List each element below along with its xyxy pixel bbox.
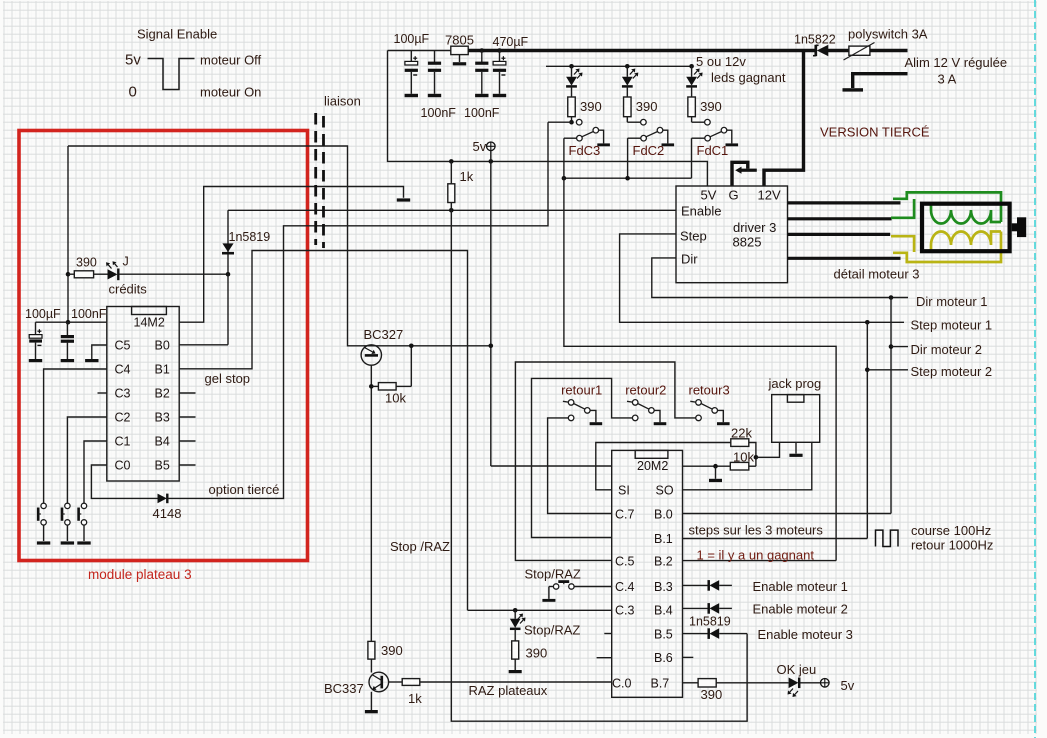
diode 1n5819 (222, 243, 234, 253)
pushbutton Stop/RAZ C.4 (549, 582, 612, 599)
svg-text:B.1: B.1 (654, 532, 673, 546)
ground bar under 100uF (29, 359, 42, 362)
svg-text:jack prog: jack prog (768, 376, 822, 391)
svg-text:BC337: BC337 (324, 681, 364, 696)
motor wire 1 (788, 201, 901, 204)
svg-text:C5: C5 (115, 339, 131, 353)
pin stub B (179, 464, 195, 466)
wire FdC2 B contact (628, 137, 641, 139)
svg-text:C.5: C.5 (615, 555, 635, 569)
svg-text:Step moteur 1: Step moteur 1 (911, 318, 993, 333)
svg-text:B.2: B.2 (654, 555, 673, 569)
resistor 390 FdC1 (688, 97, 696, 117)
svg-text:Dir moteur 1: Dir moteur 1 (916, 294, 988, 309)
motor wire 2 (788, 217, 892, 220)
capacitor 470uF power (493, 51, 506, 94)
waveform signal enable (148, 59, 195, 90)
wire stub enable moteur 2 (719, 607, 732, 609)
wire 1k down / enable riser to bottom rail (451, 203, 747, 722)
wire FdC3 node left (548, 121, 572, 123)
svg-text:390: 390 (700, 99, 722, 114)
resistor 390 OK jeu (698, 679, 716, 687)
wire credits LED to B0 node (119, 273, 228, 275)
svg-text:0: 0 (129, 84, 137, 101)
svg-text:moteur Off: moteur Off (200, 53, 262, 68)
svg-text:Stop /RAZ: Stop /RAZ (390, 539, 450, 554)
wire jack lead 1 (756, 442, 780, 457)
node 10k ground (713, 464, 718, 469)
svg-text:B.6: B.6 (654, 651, 673, 665)
svg-text:22k: 22k (731, 426, 752, 441)
svg-text:14M2: 14M2 (134, 316, 165, 330)
svg-text:100µF: 100µF (25, 307, 61, 321)
wire resistor bottom FdC2 (626, 117, 628, 123)
IC 20M2 box (612, 450, 683, 697)
capacitor 100nF power B (475, 51, 488, 94)
pin stub left row 658 (597, 657, 612, 659)
ground bar near power section (397, 198, 410, 201)
switch retour2 (627, 400, 660, 423)
svg-text:B.5: B.5 (654, 628, 673, 642)
svg-text:B1: B1 (155, 363, 170, 377)
svg-text:option tiercé: option tiercé (209, 482, 280, 497)
node leds bus FdC3 (569, 64, 574, 69)
wire retour2 to C.6 pin (532, 378, 633, 537)
svg-text:C0: C0 (115, 459, 131, 473)
svg-text:390: 390 (636, 99, 658, 114)
wire B.2 to gagnant riser (683, 560, 837, 562)
svg-text:390: 390 (76, 256, 97, 270)
wire enable line to driver (228, 209, 676, 211)
node junction enable/1k (449, 208, 454, 213)
jack prog notch (787, 395, 804, 403)
svg-text:390: 390 (381, 643, 403, 658)
resistor 22k (731, 439, 749, 447)
svg-text:100µF: 100µF (394, 32, 430, 46)
page boundary dashed line (1034, 0, 1036, 738)
ground lead 7805 (459, 55, 461, 62)
wire B.7 to 390 (683, 682, 699, 684)
diode 1n5819 enable moteur 2 (709, 603, 720, 614)
pushbutton plateau 3 (79, 503, 87, 541)
resistor 10k (730, 462, 749, 470)
node 10k top (409, 344, 414, 349)
svg-text:crédits: crédits (109, 282, 148, 297)
thick 12V power line (468, 49, 816, 52)
wire module top rail to BC327 emitter line (68, 146, 491, 346)
wire B.4 to diode (683, 607, 709, 609)
wire SI to 22k (596, 443, 731, 490)
node 100nF top (480, 48, 485, 53)
wire Step net (620, 234, 904, 322)
capacitor 100nF power A (428, 51, 441, 94)
svg-text:Dir moteur 2: Dir moteur 2 (911, 342, 983, 357)
wire leds bus 5 ou 12v (546, 65, 692, 67)
svg-text:5v: 5v (125, 52, 141, 69)
wire caps supply rail (36, 321, 107, 323)
ground bar retour3 (717, 422, 730, 425)
svg-text:gel stop: gel stop (205, 371, 251, 386)
ground bar retour2 (654, 422, 667, 425)
ground bar Stop/RAZ button (542, 599, 555, 602)
svg-text:8825: 8825 (733, 235, 762, 250)
svg-text:Enable moteur 2: Enable moteur 2 (753, 602, 848, 617)
wire 7805 input (388, 50, 451, 52)
wire Dir vertical (890, 298, 892, 514)
svg-text:course 100Hz: course 100Hz (911, 523, 991, 538)
node FdC common mid (625, 176, 630, 181)
svg-text:Step: Step (680, 229, 707, 244)
svg-text:B.3: B.3 (654, 580, 673, 594)
svg-text:FdC1: FdC1 (697, 143, 729, 158)
svg-text:C.4: C.4 (615, 580, 635, 594)
svg-text:470µF: 470µF (493, 35, 529, 49)
switch contact circle FdC3 (576, 119, 582, 125)
switch contact circle FdC1 (705, 119, 711, 125)
ground bar button 2 (61, 541, 74, 544)
wire FdC common to B.2 riser (564, 138, 836, 560)
wire retour1 to C.7 (548, 418, 612, 514)
node Dir moteur 1 (889, 295, 894, 300)
svg-text:retour 1000Hz: retour 1000Hz (911, 538, 993, 553)
node 1k top (449, 159, 454, 164)
wire 22k right (749, 443, 756, 467)
svg-text:retour1: retour1 (561, 383, 602, 398)
capacitor 100uF power (405, 51, 418, 94)
svg-text:B3: B3 (155, 411, 170, 425)
ground bar 100uF power (405, 94, 418, 97)
transistor BC337 (369, 672, 402, 692)
svg-text:1n5819: 1n5819 (689, 615, 731, 629)
wire C.3 row (468, 609, 612, 611)
svg-text:4148: 4148 (153, 506, 182, 521)
svg-text:VERSION TIERCÉ: VERSION TIERCÉ (820, 125, 930, 140)
liaison dashed link lines (316, 113, 324, 248)
wire 14M2 right supply (179, 187, 403, 323)
svg-text:J: J (123, 255, 129, 269)
svg-text:Signal Enable: Signal Enable (137, 27, 217, 42)
svg-text:390: 390 (526, 646, 548, 661)
pin stub C3 (98, 392, 107, 394)
wire 390 to LED OK jeu (716, 682, 788, 684)
wire 5v into 20M2 (491, 465, 612, 467)
green coil wiring motor (891, 192, 1001, 223)
wire gel stop net B1 to C.3 (179, 251, 467, 611)
pin stub B (179, 440, 195, 442)
svg-text:détail moteur 3: détail moteur 3 (834, 267, 920, 282)
wire 390 to credits LED (68, 273, 74, 275)
IC 14M2 box (107, 307, 179, 482)
pin stub B.6 right (683, 656, 694, 658)
resistor 390 stop (512, 641, 519, 659)
supply symbol 5v (487, 142, 496, 161)
wire C5 to ground (92, 345, 107, 359)
wire resistor bottom FdC1 (691, 117, 693, 123)
svg-text:Stop/RAZ: Stop/RAZ (524, 623, 580, 638)
LED gagnant FdC3 (566, 66, 582, 97)
node leds bus FdC1 (689, 64, 694, 69)
wire elbow to contact FdC1 (692, 121, 705, 123)
wire 1n5819 vertical B0 riser (227, 210, 229, 344)
ground bar jack (789, 454, 802, 457)
wire BC337 emitter (370, 692, 372, 710)
pin stub B (179, 392, 195, 394)
wire C4 to button 1 (44, 369, 107, 503)
svg-text:Dir: Dir (681, 252, 698, 267)
svg-text:5V: 5V (701, 188, 717, 203)
wire jack ground lead (795, 442, 797, 453)
wire stub Dir moteur 2 (891, 346, 908, 348)
pushbutton plateau 2 (62, 503, 70, 541)
wire module left vertical (67, 146, 69, 322)
svg-text:100nF: 100nF (421, 106, 457, 120)
svg-text:1k: 1k (460, 169, 474, 184)
wire B.1 to Step riser (683, 538, 868, 540)
svg-text:Alim 12 V régulée: Alim 12 V régulée (905, 55, 1008, 70)
resistor 390 BC337 (368, 641, 375, 659)
LED gagnant FdC2 (622, 66, 638, 97)
wire stub enable moteur 1 (719, 584, 732, 586)
wire C2 to button 2 (67, 417, 106, 503)
ground bar retour1 (590, 422, 603, 425)
svg-text:C.7: C.7 (615, 508, 635, 522)
wire 390 to BC337 (370, 659, 372, 672)
wire Step vertical (866, 322, 868, 538)
svg-text:Enable: Enable (681, 204, 721, 219)
svg-text:5v: 5v (841, 678, 855, 693)
pushbutton plateau 1 (38, 503, 46, 541)
thick wire 12V drop to driver (764, 51, 804, 187)
wire FdC1 vertical (691, 138, 693, 178)
svg-text:Enable moteur 1: Enable moteur 1 (753, 579, 848, 594)
diode 4148 (158, 494, 168, 504)
svg-text:driver 3: driver 3 (733, 220, 776, 235)
node junction credits/B0 (226, 272, 231, 277)
wire FdC3 B contact (564, 137, 577, 139)
svg-text:RAZ plateaux: RAZ plateaux (469, 683, 548, 698)
wire 10k right (749, 465, 756, 467)
node Step moteur 1 (865, 320, 870, 325)
wire B.3 to diode (683, 584, 709, 586)
wire C1 to button 3 (84, 441, 107, 503)
capacitor 100nF module (61, 322, 74, 359)
diode 1n5819 enable moteur 1 (709, 580, 720, 591)
module plateau 3 red outline box (19, 131, 308, 561)
svg-text:20M2: 20M2 (637, 459, 668, 473)
svg-text:OK jeu: OK jeu (777, 662, 817, 677)
photodiode J credits (94, 261, 119, 280)
ground bar FdC2 (662, 143, 675, 146)
svg-text:B.4: B.4 (654, 604, 673, 618)
svg-text:1n5819: 1n5819 (229, 230, 271, 244)
thick wire polyswitch to alim (870, 49, 908, 52)
ground bar 100nF B (475, 94, 488, 97)
svg-text:G: G (729, 188, 739, 203)
wire B0 stub (179, 344, 228, 346)
svg-text:100nF: 100nF (71, 307, 107, 321)
svg-text:C.3: C.3 (615, 604, 635, 618)
resistor 1k pullup (448, 161, 455, 202)
svg-text:B5: B5 (155, 459, 170, 473)
node Dir moteur 2 (889, 344, 894, 349)
svg-text:1n5822: 1n5822 (794, 33, 836, 47)
yellow coil wiring motor (891, 232, 1001, 263)
node Stop/RAZ led (513, 608, 518, 613)
LED gagnant FdC1 (686, 66, 702, 97)
motor shaft (1012, 217, 1026, 237)
ground bar 7805 (453, 62, 466, 65)
svg-text:5v: 5v (473, 139, 487, 154)
wire FdC common line (564, 177, 692, 179)
svg-text:C1: C1 (115, 435, 131, 449)
resistor 390 FdC2 (624, 97, 632, 117)
wire retour3 to C.5 (515, 362, 695, 560)
motor wire 3 (788, 233, 891, 236)
LED OK jeu (788, 678, 821, 698)
svg-text:B2: B2 (155, 387, 170, 401)
svg-text:B4: B4 (155, 435, 170, 449)
svg-text:B0: B0 (155, 339, 170, 353)
wire RAZ plateaux to C.0 (420, 681, 612, 683)
node FdC common left (562, 176, 567, 181)
svg-text:SO: SO (656, 484, 674, 498)
svg-text:FdC2: FdC2 (633, 143, 665, 158)
wire 5v vertical (490, 161, 492, 466)
svg-text:Stop/RAZ: Stop/RAZ (525, 567, 581, 582)
node 5v / BC327 line (489, 344, 494, 349)
svg-text:B.7: B.7 (651, 677, 670, 691)
ground bar button 1 (37, 541, 50, 544)
limit switch FdC2 (641, 127, 668, 143)
ground bar FdC3 (597, 143, 610, 146)
wire jack to SO (683, 442, 812, 490)
svg-text:1 = il y a un gagnant: 1 = il y a un gagnant (697, 548, 815, 563)
wire C0 to 4148 (91, 465, 157, 498)
node junction caps rail (66, 320, 71, 325)
svg-text:10k: 10k (733, 450, 754, 465)
capacitor 100uF module electrolytic (29, 322, 42, 359)
switch retour1 (563, 400, 596, 423)
resistor 10k BC327 (371, 346, 411, 390)
ground bar button 3 (77, 541, 90, 544)
wire B.0 to Dir riser (683, 513, 892, 515)
svg-text:steps sur les 3 moteurs: steps sur les 3 moteurs (689, 523, 824, 538)
ground bar FdC1 (726, 143, 739, 146)
pin stub B (179, 416, 195, 418)
wire enable moteur 3 to bottom rail (719, 633, 747, 635)
resistor 1k BC337 (402, 679, 420, 686)
motor body (922, 204, 1010, 252)
thick wire alim return (853, 74, 908, 88)
svg-text:3 A: 3 A (938, 72, 957, 87)
svg-text:retour2: retour2 (625, 383, 666, 398)
node 5v stem (489, 159, 494, 164)
ground bar 470uF (493, 94, 506, 97)
IC 14M2 notch (132, 307, 167, 315)
limit switch FdC3 (577, 127, 604, 143)
svg-text:7805: 7805 (445, 33, 474, 48)
ground bar under 100nF (61, 359, 74, 362)
ground bar 10k (709, 479, 722, 482)
wire resistor bottom FdC3 (571, 117, 573, 123)
svg-text:C2: C2 (115, 411, 131, 425)
svg-text:5 ou 12v: 5 ou 12v (696, 54, 746, 69)
svg-text:retour3: retour3 (689, 383, 730, 398)
ground bar BC337 (365, 710, 378, 713)
svg-text:C3: C3 (115, 387, 131, 401)
svg-text:B.0: B.0 (654, 508, 673, 522)
diode 1n5822 schottky (813, 45, 828, 56)
wire 390 stop to ground (514, 659, 516, 670)
node leds bus FdC2 (625, 64, 630, 69)
thick wire diode to polyswitch (827, 49, 849, 52)
supply symbol 5v OK jeu (821, 679, 830, 688)
svg-text:FdC3: FdC3 (569, 143, 601, 158)
IC jack prog box (772, 395, 820, 443)
svg-text:390: 390 (701, 687, 723, 702)
ground wire 10k (715, 466, 717, 479)
svg-text:Enable moteur 3: Enable moteur 3 (758, 627, 853, 642)
svg-text:BC327: BC327 (364, 327, 404, 342)
ground bar alim (843, 88, 864, 91)
ground bar C5 (85, 359, 98, 362)
wire FdC1 B contact (692, 137, 705, 139)
wire elbow to contact FdC2 (627, 121, 640, 123)
node 470uF top (497, 48, 502, 53)
svg-text:leds gagnant: leds gagnant (711, 70, 786, 85)
switch retour3 (690, 400, 723, 423)
svg-text:liaison: liaison (324, 94, 361, 109)
node junction left vertical / credits (66, 272, 71, 277)
IC 20M2 notch (635, 450, 668, 458)
svg-text:10k: 10k (385, 391, 406, 406)
svg-text:Step moteur 2: Step moteur 2 (911, 364, 993, 379)
diode 1n5819 enable moteur 3 (709, 628, 720, 639)
svg-text:1k: 1k (408, 691, 422, 706)
IC driver 3 8825 box (676, 186, 788, 283)
LED Stop/RAZ (510, 610, 526, 641)
transistor BC327 (361, 345, 381, 365)
regulator 7805 (451, 46, 468, 54)
svg-text:polyswitch 3A: polyswitch 3A (848, 27, 928, 42)
resistor 390 credits (74, 271, 93, 278)
wire option tierce to FdC3 node (168, 122, 548, 498)
wire B.5 to diode (683, 633, 709, 635)
svg-text:SI: SI (618, 484, 630, 498)
waveform course/retour (876, 530, 899, 546)
ground bar 100nF A (428, 94, 441, 97)
svg-text:C.0: C.0 (612, 677, 632, 691)
ground bar 390 stop (509, 670, 522, 673)
switch contact circle FdC2 (641, 119, 647, 125)
wire power section frame and 5v rail (388, 51, 708, 187)
resistor 390 FdC3 (568, 97, 576, 117)
wire stub Step moteur 2 (867, 369, 908, 371)
svg-text:390: 390 (580, 99, 602, 114)
wire BC327 collector down (370, 365, 372, 641)
pin stub left row 633 (604, 633, 611, 635)
wire FdC common vertical (627, 138, 629, 178)
svg-text:12V: 12V (758, 188, 781, 203)
node FdC3 / option tierce (569, 120, 574, 125)
motor wire 4 (788, 257, 901, 260)
node 22k/jack (754, 455, 759, 460)
node BC327/10k (369, 384, 374, 389)
node Step moteur 2 (865, 368, 870, 373)
polyswitch 3A (844, 43, 875, 61)
wire Dir net (652, 258, 908, 298)
svg-text:moteur On: moteur On (200, 85, 261, 100)
